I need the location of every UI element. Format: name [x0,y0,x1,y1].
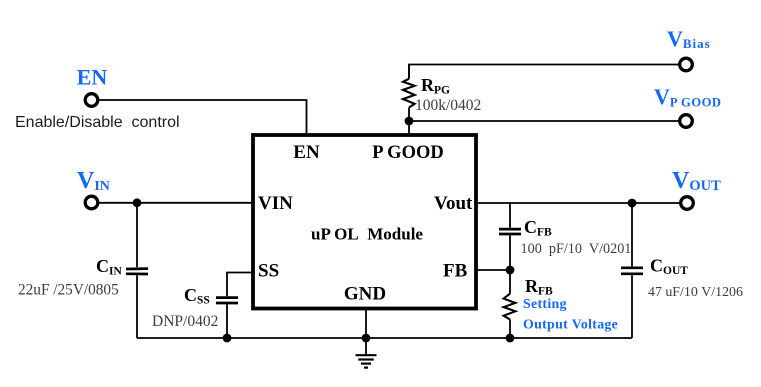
terminal VBias [680,58,693,71]
node VPGOOD label [654,84,722,109]
label RPG [421,75,450,97]
svg-text:Vout: Vout [434,193,473,214]
svg-text:GND: GND [344,284,386,305]
label RFB [525,276,553,298]
junction GND [362,334,371,343]
svg-text:EN: EN [77,65,108,90]
svg-text:22uF /25V/0805: 22uF /25V/0805 [18,282,119,299]
terminal EN [85,94,98,107]
svg-text:DNP/0402: DNP/0402 [152,313,218,330]
wire VBias rail [409,65,679,79]
wire VIN rail [99,202,252,204]
terminal VIN [85,196,98,209]
label CFB [524,217,552,239]
svg-text:VIN: VIN [258,193,293,214]
wire GND pin to rail [365,309,367,338]
wire ground rail [137,337,632,339]
value COUT 47 uF/10 V/1206 [648,285,743,300]
junction FB / CFB / RFB [506,266,515,275]
capacitor C2 CSS [216,298,238,338]
value CSS DNP/0402 [152,313,218,330]
wire VPGOOD rail [409,120,679,122]
svg-text:Output Voltage: Output Voltage [523,318,618,333]
label CIN [96,256,122,278]
label COUT [650,256,688,278]
svg-text:100 pF/10 V/0201: 100 pF/10 V/0201 [521,241,632,257]
junction RPG / PGOOD [405,117,414,126]
wire SS pin to CSS [227,273,252,297]
node VIN label [77,168,110,194]
junction CSS / ground rail [223,334,232,343]
value CIN 22uF /25V/0805 [18,282,119,299]
resistor R2 RFB [504,270,516,338]
text Output Voltage [523,318,618,333]
resistor R1 RPG [403,65,415,122]
svg-text:EN: EN [293,142,320,163]
capacitor C3 CFB [499,203,521,270]
text Enable/Disable control [15,114,180,131]
wire FB pin to RFB [476,269,510,271]
ground [356,338,377,368]
label CSS [184,285,210,307]
terminal VOUT [681,197,694,210]
svg-text:100k/0402: 100k/0402 [415,97,481,114]
svg-text:Setting: Setting [523,297,567,312]
capacitor C1 CIN [126,203,148,338]
svg-text:SS: SS [258,261,279,282]
text Setting [523,297,567,312]
svg-text:Enable/Disable control: Enable/Disable control [15,114,180,131]
node VBias label [667,26,711,51]
node VOUT label [672,168,721,194]
value RPG 100k/0402 [415,97,481,114]
svg-text:47 uF/10 V/1206: 47 uF/10 V/1206 [648,285,743,300]
node EN label [77,65,108,90]
wire VOUT rail [476,202,680,204]
terminal VPGOOD [680,115,693,128]
wire EN terminal to module EN pin [99,100,307,133]
capacitor C4 COUT [621,203,643,338]
junction VOUT / COUT [628,199,637,208]
junction VIN / CIN [133,198,142,207]
op module U1 uPOL [253,135,476,309]
value CFB 100 pF/10 V/0201 [521,241,632,257]
svg-text:FB: FB [443,261,468,282]
svg-text:P GOOD: P GOOD [372,143,443,163]
wire RPG to PGOOD pin [408,121,410,134]
svg-text:uP OL Module: uP OL Module [311,225,423,244]
junction RFB / ground rail [506,334,515,343]
